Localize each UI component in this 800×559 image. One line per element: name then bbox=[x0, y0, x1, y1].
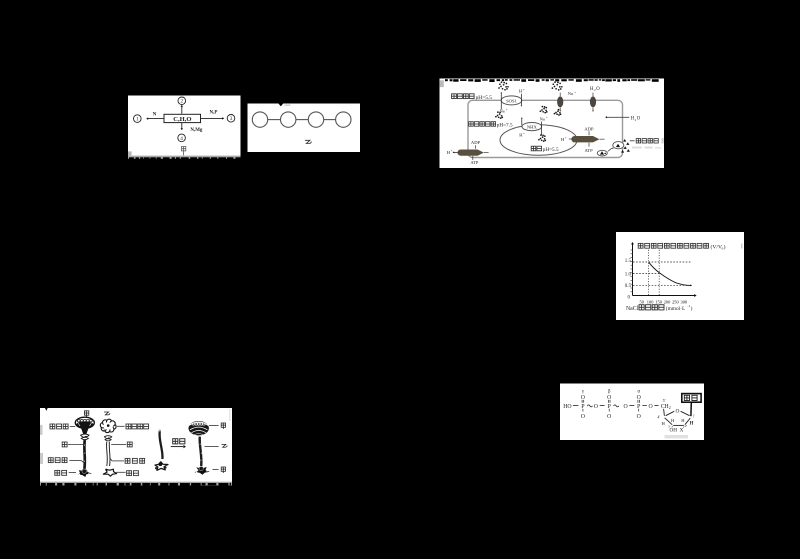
svg-text:+: + bbox=[451, 149, 453, 153]
svg-text:1.0: 1.0 bbox=[625, 272, 632, 277]
svg-text:pH=7.5: pH=7.5 bbox=[497, 122, 513, 128]
svg-text:O: O bbox=[637, 395, 641, 401]
svg-text:): ) bbox=[724, 243, 726, 250]
svg-text:Na: Na bbox=[540, 116, 545, 121]
svg-text:O: O bbox=[637, 414, 641, 420]
svg-text:O: O bbox=[637, 117, 641, 122]
svg-text:1': 1' bbox=[693, 413, 696, 418]
svg-text:O: O bbox=[607, 414, 611, 420]
svg-text:O: O bbox=[581, 395, 585, 401]
svg-text:1: 1 bbox=[136, 116, 139, 122]
svg-text:OH: OH bbox=[670, 428, 678, 434]
svg-text:100: 100 bbox=[647, 300, 654, 305]
svg-text:4': 4' bbox=[657, 414, 660, 419]
svg-text:+: + bbox=[574, 90, 576, 94]
svg-text:2: 2 bbox=[669, 406, 671, 410]
svg-text:ADP: ADP bbox=[584, 126, 594, 131]
svg-text:C,H,O: C,H,O bbox=[173, 116, 191, 123]
svg-text:O: O bbox=[675, 408, 679, 414]
svg-text:+: + bbox=[546, 116, 548, 120]
svg-text:N,P: N,P bbox=[210, 110, 218, 115]
svg-text:(V/V: (V/V bbox=[711, 243, 723, 250]
svg-text:+: + bbox=[523, 132, 525, 136]
svg-text:HO: HO bbox=[563, 404, 571, 410]
svg-text:N: N bbox=[153, 113, 157, 118]
svg-text:pH=5.5: pH=5.5 bbox=[543, 147, 559, 153]
svg-text:Na: Na bbox=[568, 91, 573, 96]
svg-text:X: X bbox=[680, 428, 684, 434]
svg-text:200: 200 bbox=[664, 300, 671, 305]
svg-text:O: O bbox=[624, 404, 628, 410]
svg-text:2: 2 bbox=[181, 99, 184, 105]
svg-text:O: O bbox=[607, 395, 611, 401]
svg-text:NaCl: NaCl bbox=[626, 306, 639, 312]
svg-text:O: O bbox=[594, 404, 598, 410]
svg-text:O: O bbox=[596, 87, 600, 92]
svg-text:+: + bbox=[565, 136, 567, 140]
svg-text:5': 5' bbox=[663, 398, 666, 403]
svg-text:O: O bbox=[581, 414, 585, 420]
svg-text:): ) bbox=[691, 305, 693, 312]
svg-text:0.5: 0.5 bbox=[625, 284, 632, 289]
svg-text:H: H bbox=[690, 422, 694, 427]
svg-text:2': 2' bbox=[685, 424, 688, 428]
svg-text:250: 250 bbox=[672, 300, 679, 305]
svg-text:ADP: ADP bbox=[471, 140, 481, 145]
svg-text:4: 4 bbox=[180, 136, 183, 142]
svg-text:ATP: ATP bbox=[585, 148, 594, 153]
svg-text:(mmol·L: (mmol·L bbox=[666, 305, 685, 312]
svg-text:1.5: 1.5 bbox=[625, 259, 632, 264]
svg-text:+: + bbox=[506, 108, 508, 112]
svg-text:NHX: NHX bbox=[527, 125, 538, 130]
svg-text:150: 150 bbox=[655, 300, 662, 305]
svg-text:SOS1: SOS1 bbox=[506, 98, 517, 103]
svg-text:N,Mg: N,Mg bbox=[190, 128, 203, 133]
svg-text:3: 3 bbox=[230, 116, 233, 122]
svg-text:ATP: ATP bbox=[470, 160, 479, 165]
svg-text:+: + bbox=[523, 88, 525, 92]
svg-text:O: O bbox=[649, 404, 653, 410]
